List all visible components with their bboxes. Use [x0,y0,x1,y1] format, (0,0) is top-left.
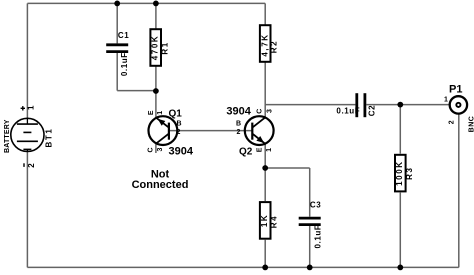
svg-text:B: B [177,121,182,128]
transistor Q2 [245,116,274,145]
wire bottom rail [27,266,458,268]
svg-text:Q1: Q1 [169,109,183,120]
junction dot bottom R4 [262,265,268,271]
svg-text:0.1uF: 0.1uF [314,225,323,249]
wire top rail [27,2,265,4]
capacitor C1 [106,45,128,52]
junction dot top R1 [153,1,159,7]
svg-text:Connected: Connected [132,179,189,191]
wire node to C3 [265,167,310,169]
wire C3 top drop [309,168,311,217]
svg-text:Q2: Q2 [239,147,253,158]
wire R3 bottom drop [399,193,401,268]
svg-text:4,7K: 4,7K [261,33,270,56]
junction dot output R3 [397,102,403,108]
capacitor C3 [299,218,321,225]
wire R1 top drop [155,3,157,28]
svg-text:0.1uF: 0.1uF [336,106,360,115]
resistor R2 [260,25,271,62]
resistor R4 [260,202,271,239]
svg-text:2: 2 [177,129,181,136]
svg-text:BT1: BT1 [45,128,54,148]
svg-text:E: E [148,110,155,115]
wire C1 bottom drop [116,53,118,91]
wire C3 bottom drop [309,226,311,267]
wire output to C2 [265,104,355,106]
svg-text:1: 1 [444,96,448,103]
svg-text:3904: 3904 [226,106,251,118]
svg-text:1K: 1K [260,214,269,227]
svg-text:BATTERY: BATTERY [4,119,11,153]
junction dot Q2 emitter node [262,165,268,171]
transistor Q1 [149,116,178,145]
wire Q1 collector stub [155,144,157,153]
svg-text:3904: 3904 [169,146,194,158]
svg-text:0.1uF: 0.1uF [120,52,129,76]
wire C2 to P1 [366,104,449,106]
capacitor C2 [357,93,365,117]
svg-text:3: 3 [266,109,273,113]
wire C1 to R1 junction [117,90,156,92]
svg-text:1: 1 [157,111,164,115]
svg-text:2: 2 [449,120,456,124]
wire right rail P1 pin2 [458,114,460,267]
svg-text:C: C [147,147,154,152]
junction dot bottom R3 [397,265,403,271]
wire R3 top drop [399,105,401,154]
junction dot top C1 [114,1,120,7]
wire left rail upper [26,3,28,118]
wire R4 bottom [264,240,266,268]
svg-text:P1: P1 [449,83,462,95]
svg-text:C2: C2 [368,105,377,116]
svg-text:R4: R4 [270,215,279,228]
wire left rail lower [26,151,28,267]
svg-text:R3: R3 [405,166,414,179]
svg-text:2: 2 [237,129,241,136]
junction dot bottom C3 [307,265,313,271]
svg-text:470K: 470K [151,35,160,61]
svg-text:100K: 100K [395,160,404,186]
battery BT1 [11,118,44,151]
battery plus [21,106,25,110]
wire Q1 base to Q2 base [169,130,252,132]
note Not Connected [132,169,189,191]
wire Q2 emitter to R4 [264,144,266,201]
wire R2 top drop [264,3,266,24]
connector P1 BNC [450,96,467,113]
svg-text:R1: R1 [161,41,170,54]
svg-text:C: C [257,109,264,114]
wire R1 bottom to node [155,67,157,92]
svg-text:BNC: BNC [469,116,474,133]
svg-text:E: E [257,147,264,152]
resistor R3 [395,155,406,192]
svg-text:B: B [236,121,241,128]
wire Q1 emitter pin [155,91,157,117]
svg-text:R2: R2 [270,40,279,53]
resistor R1 [150,29,161,66]
svg-text:2: 2 [27,163,36,168]
battery minus [23,163,25,167]
junction dot R1 C1 Q1 [153,88,159,94]
svg-text:1: 1 [26,105,35,110]
svg-text:3: 3 [157,147,164,151]
wire C1 top drop [116,3,118,43]
wire R2 bottom to Q2 collector [264,63,266,118]
svg-text:C3: C3 [310,201,321,210]
svg-text:1: 1 [266,148,273,152]
svg-text:C1: C1 [118,31,129,40]
